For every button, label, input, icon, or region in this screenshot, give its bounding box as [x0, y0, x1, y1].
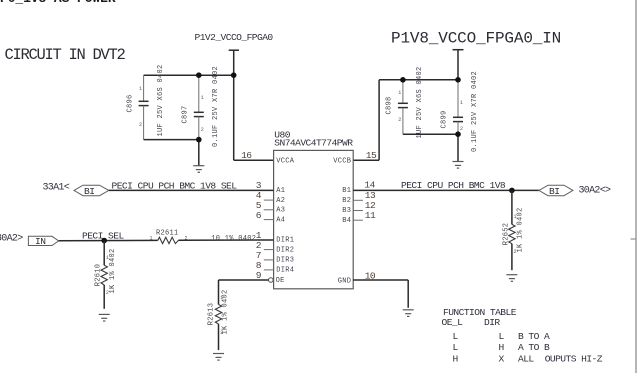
svg-text:2: 2 [460, 126, 463, 132]
svg-text:P0_1V8 AS POWER: P0_1V8 AS POWER [0, 0, 116, 6]
svg-text:H: H [499, 342, 504, 353]
svg-text:30A2>: 30A2> [0, 233, 23, 244]
svg-text:SN74AVC4T774PWR: SN74AVC4T774PWR [274, 137, 353, 148]
svg-text:1UF 25V X6S 0402: 1UF 25V X6S 0402 [157, 64, 165, 136]
svg-text:PECI CPU PCH BMC 1V8: PECI CPU PCH BMC 1V8 [401, 180, 506, 191]
svg-text:A TO B: A TO B [518, 342, 550, 353]
svg-text:B3: B3 [342, 207, 351, 215]
svg-text:0.1UF 25V X7R 0402: 0.1UF 25V X7R 0402 [471, 71, 479, 152]
svg-text:P1V2_VCCO_FPGA0: P1V2_VCCO_FPGA0 [195, 32, 274, 43]
svg-text:L: L [453, 342, 459, 353]
svg-text:P1V8_VCCO_FPGA0_IN: P1V8_VCCO_FPGA0_IN [391, 30, 561, 48]
svg-text:IN: IN [35, 236, 45, 247]
svg-text:DIR4: DIR4 [276, 267, 294, 275]
svg-text:DIR1: DIR1 [276, 236, 294, 244]
svg-text:R2610: R2610 [95, 264, 103, 287]
svg-text:0.1UF 25V X7R 0402: 0.1UF 25V X7R 0402 [212, 66, 220, 147]
svg-text:VCCA: VCCA [276, 157, 295, 165]
svg-text:C898: C898 [386, 96, 394, 114]
svg-text:2: 2 [106, 290, 109, 296]
svg-text:15: 15 [366, 150, 377, 161]
svg-text:1K 1% 0402: 1K 1% 0402 [109, 248, 117, 293]
svg-text:A2: A2 [276, 197, 285, 205]
svg-text:A1: A1 [276, 187, 285, 195]
svg-text:1: 1 [460, 100, 463, 106]
svg-text:CIRCUIT IN DVT2: CIRCUIT IN DVT2 [5, 46, 126, 64]
svg-text:2: 2 [139, 122, 142, 128]
svg-text:H: H [453, 353, 458, 364]
svg-text:X: X [499, 353, 505, 364]
svg-text:1: 1 [201, 95, 204, 101]
svg-text:L: L [499, 331, 505, 342]
svg-text:L: L [453, 331, 459, 342]
svg-text:2: 2 [220, 330, 223, 336]
svg-text:33A1<: 33A1< [43, 183, 70, 194]
svg-text:B1: B1 [342, 187, 351, 195]
svg-text:14: 14 [364, 180, 375, 191]
svg-text:BI: BI [84, 186, 94, 197]
svg-text:ALL: ALL [518, 353, 534, 364]
svg-text:11: 11 [365, 210, 376, 221]
svg-text:DIR3: DIR3 [276, 257, 294, 265]
svg-text:C897: C897 [181, 105, 189, 123]
svg-text:R2613: R2613 [207, 303, 215, 326]
svg-text:16: 16 [241, 150, 252, 161]
svg-text:A3: A3 [276, 207, 285, 215]
svg-text:2: 2 [201, 127, 204, 133]
svg-text:DIR2: DIR2 [276, 246, 294, 254]
svg-text:1: 1 [149, 236, 152, 242]
svg-text:OUPUTS HI-Z: OUPUTS HI-Z [545, 353, 603, 364]
svg-text:10 1% 0402: 10 1% 0402 [211, 235, 256, 243]
svg-text:R2611: R2611 [156, 230, 179, 238]
svg-text:BI: BI [549, 186, 559, 197]
svg-text:B2: B2 [342, 197, 351, 205]
svg-text:2: 2 [184, 236, 187, 242]
svg-text:30A2<>: 30A2<> [579, 185, 612, 196]
svg-text:6: 6 [256, 210, 262, 221]
svg-text:PECI CPU PCH BMC 1V8 SEL: PECI CPU PCH BMC 1V8 SEL [112, 181, 238, 192]
svg-text:DIR: DIR [484, 317, 500, 328]
svg-text:1UF 25V X6S 0402: 1UF 25V X6S 0402 [416, 66, 424, 138]
svg-text:1K 1% 0402: 1K 1% 0402 [517, 207, 525, 252]
svg-text:C896: C896 [126, 94, 134, 112]
svg-text:C899: C899 [441, 110, 449, 128]
svg-text:1: 1 [106, 255, 109, 261]
svg-text:2: 2 [514, 249, 517, 255]
svg-text:2: 2 [398, 117, 401, 123]
svg-text:1: 1 [514, 214, 517, 220]
svg-text:1: 1 [398, 90, 401, 96]
svg-text:B4: B4 [342, 217, 351, 225]
svg-text:R2652: R2652 [502, 223, 510, 246]
svg-text:A4: A4 [276, 216, 285, 224]
svg-text:1: 1 [139, 86, 142, 92]
svg-text:B TO A: B TO A [518, 331, 550, 342]
svg-text:VCCB: VCCB [333, 157, 351, 165]
svg-text:GND: GND [338, 277, 352, 285]
svg-text:1: 1 [220, 295, 223, 301]
svg-text:OE: OE [276, 277, 285, 285]
svg-text:OE_L: OE_L [442, 317, 464, 328]
